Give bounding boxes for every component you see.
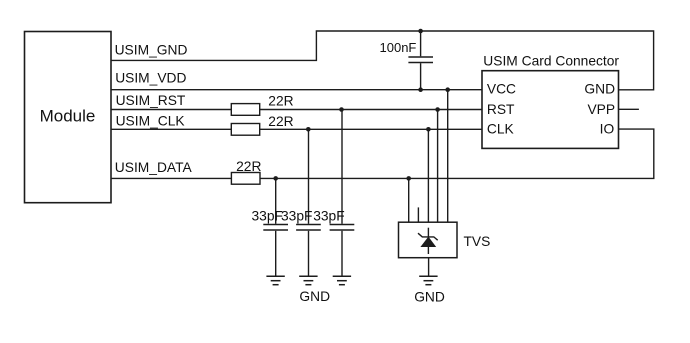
svg-text:USIM_RST: USIM_RST xyxy=(116,93,186,108)
svg-text:GND: GND xyxy=(299,289,330,304)
svg-text:TVS: TVS xyxy=(464,234,491,249)
svg-text:USIM_CLK: USIM_CLK xyxy=(116,113,186,128)
svg-text:GND: GND xyxy=(584,82,615,97)
svg-text:USIM_GND: USIM_GND xyxy=(115,43,188,58)
svg-text:VPP: VPP xyxy=(587,102,615,117)
svg-text:22R: 22R xyxy=(268,114,293,129)
svg-text:IO: IO xyxy=(600,122,615,137)
svg-text:VCC: VCC xyxy=(487,82,516,97)
svg-text:RST: RST xyxy=(487,102,515,117)
svg-text:GND: GND xyxy=(414,290,445,305)
svg-text:22R: 22R xyxy=(236,159,261,174)
svg-text:USIM_DATA: USIM_DATA xyxy=(115,160,193,175)
svg-text:100nF: 100nF xyxy=(380,40,417,55)
svg-text:USIM Card Connector: USIM Card Connector xyxy=(483,53,619,68)
svg-text:USIM_VDD: USIM_VDD xyxy=(115,71,186,86)
svg-text:22R: 22R xyxy=(268,94,293,109)
svg-text:Module: Module xyxy=(40,106,96,125)
svg-text:CLK: CLK xyxy=(487,122,515,137)
svg-text:33pF: 33pF xyxy=(252,209,283,224)
svg-text:33pF: 33pF xyxy=(281,209,312,224)
svg-text:33pF: 33pF xyxy=(313,209,344,224)
